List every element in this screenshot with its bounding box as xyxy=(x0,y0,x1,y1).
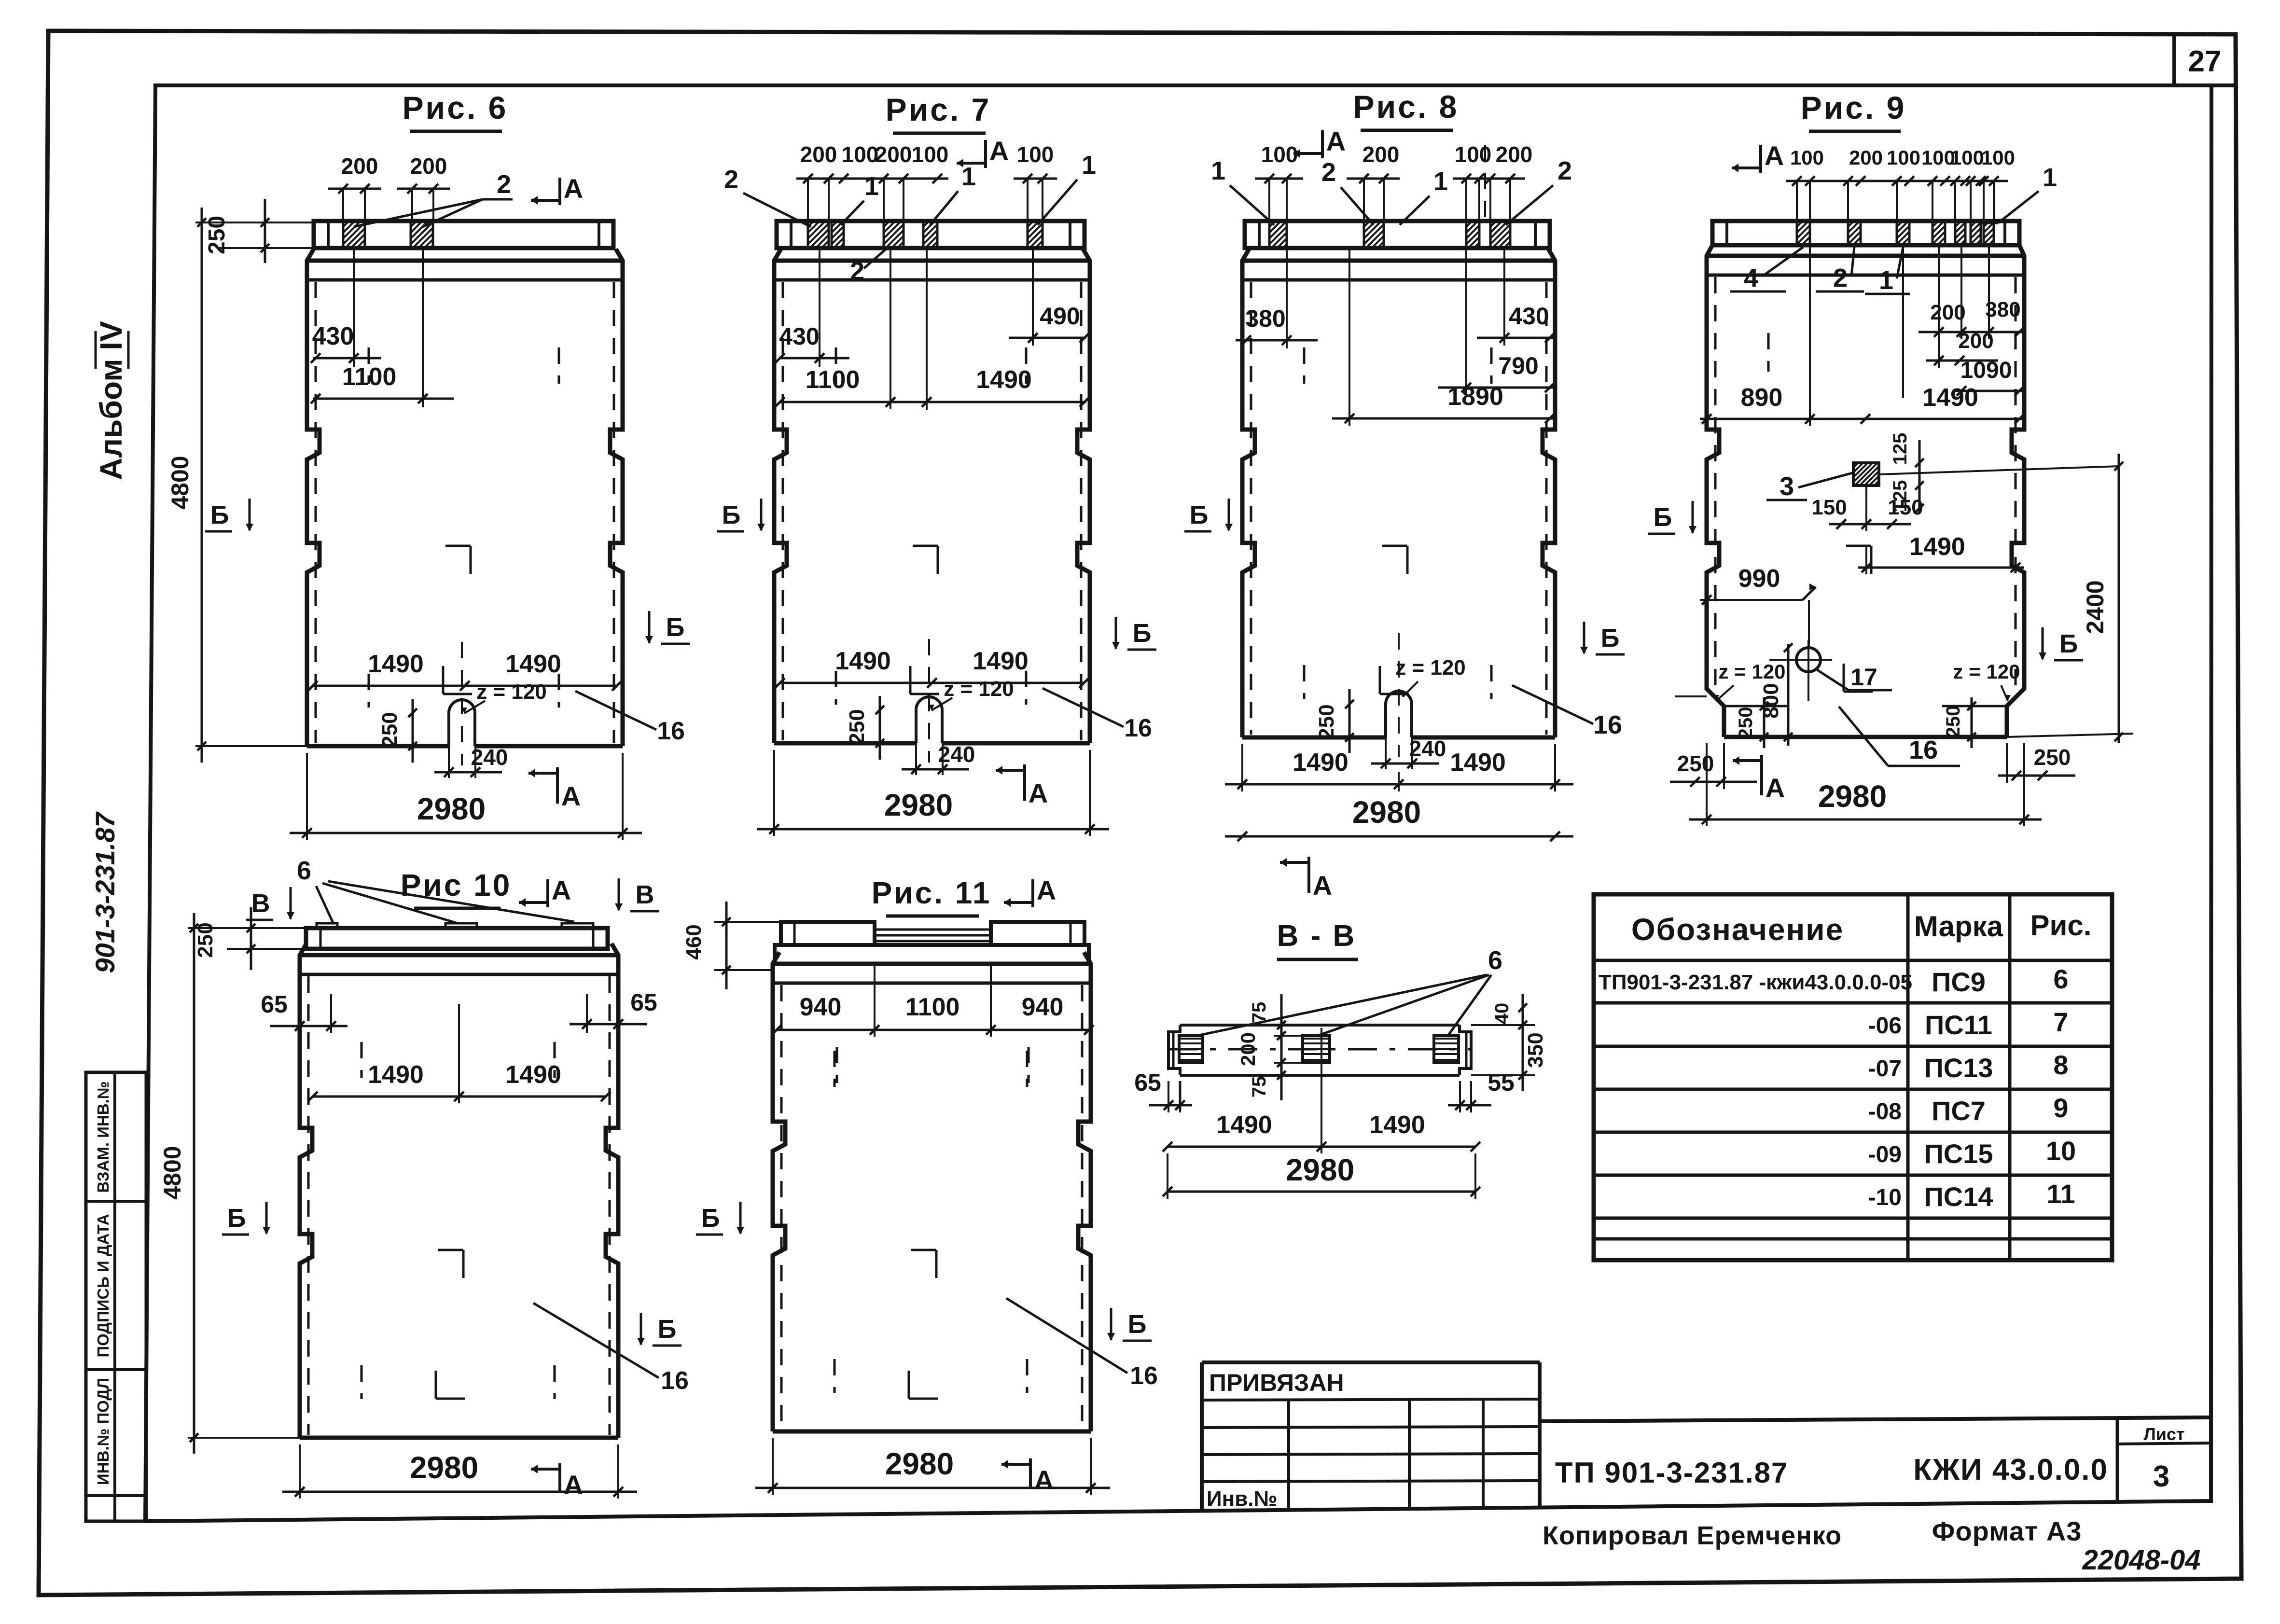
svg-text:200: 200 xyxy=(1930,301,1965,324)
svg-text:Б: Б xyxy=(1190,500,1209,529)
svg-text:27: 27 xyxy=(2188,45,2222,78)
svg-text:8: 8 xyxy=(2053,1050,2068,1080)
svg-text:1490: 1490 xyxy=(505,1061,561,1089)
svg-text:Рис. 6: Рис. 6 xyxy=(403,90,508,125)
svg-text:2980: 2980 xyxy=(1286,1152,1354,1187)
svg-text:1: 1 xyxy=(1082,151,1096,180)
svg-text:z = 120: z = 120 xyxy=(944,677,1014,701)
svg-text:ПОДПИСЬ И ДАТА: ПОДПИСЬ И ДАТА xyxy=(94,1214,112,1357)
svg-text:1490: 1490 xyxy=(1216,1111,1272,1139)
svg-text:А: А xyxy=(564,173,583,204)
svg-text:Обозначение: Обозначение xyxy=(1631,912,1844,947)
svg-text:Рис.: Рис. xyxy=(2030,909,2092,942)
svg-text:Рис. 8: Рис. 8 xyxy=(1353,89,1459,125)
svg-text:380: 380 xyxy=(1245,305,1285,332)
svg-text:250: 250 xyxy=(204,216,230,254)
svg-text:6: 6 xyxy=(2053,964,2068,994)
svg-text:Б: Б xyxy=(722,500,741,529)
svg-text:2980: 2980 xyxy=(884,788,953,822)
svg-text:940: 940 xyxy=(1022,993,1064,1021)
svg-text:2980: 2980 xyxy=(417,791,486,826)
svg-text:ТП 901-3-231.87: ТП 901-3-231.87 xyxy=(1555,1457,1788,1489)
svg-text:Б: Б xyxy=(1654,503,1672,532)
svg-text:z = 120: z = 120 xyxy=(1395,656,1466,680)
svg-text:1: 1 xyxy=(1211,156,1225,185)
svg-text:16: 16 xyxy=(1909,736,1938,764)
svg-text:Марка: Марка xyxy=(1914,910,2003,943)
svg-text:А: А xyxy=(1034,1465,1054,1495)
svg-text:Б: Б xyxy=(1601,624,1620,652)
svg-text:2980: 2980 xyxy=(885,1446,954,1481)
svg-text:460: 460 xyxy=(682,924,706,959)
svg-text:Альбом IV: Альбом IV xyxy=(94,321,128,480)
svg-text:65: 65 xyxy=(261,991,288,1018)
svg-text:-07: -07 xyxy=(1868,1056,1902,1082)
svg-text:Лист: Лист xyxy=(2143,1424,2184,1444)
svg-text:16: 16 xyxy=(1593,710,1622,739)
svg-text:4: 4 xyxy=(1744,264,1758,292)
svg-text:200: 200 xyxy=(1237,1032,1259,1066)
svg-text:В: В xyxy=(636,880,654,909)
svg-text:125: 125 xyxy=(1890,433,1911,465)
svg-text:1: 1 xyxy=(864,172,879,201)
svg-text:А: А xyxy=(1766,773,1785,803)
svg-text:100: 100 xyxy=(1017,142,1054,167)
svg-text:2980: 2980 xyxy=(1352,795,1421,830)
svg-text:Б: Б xyxy=(1128,1310,1147,1339)
svg-text:2: 2 xyxy=(1833,264,1848,292)
svg-text:65: 65 xyxy=(1134,1069,1161,1096)
svg-text:100: 100 xyxy=(1950,146,1984,169)
svg-text:2980: 2980 xyxy=(1818,779,1887,814)
svg-text:1100: 1100 xyxy=(905,993,960,1021)
svg-text:Б: Б xyxy=(658,1315,677,1344)
svg-text:100: 100 xyxy=(1981,146,2015,169)
svg-text:1490: 1490 xyxy=(1909,533,1965,561)
svg-text:200: 200 xyxy=(1362,142,1400,167)
svg-text:4800: 4800 xyxy=(159,1146,186,1199)
svg-text:250: 250 xyxy=(1943,706,1964,738)
svg-text:250: 250 xyxy=(1735,707,1756,739)
svg-text:ПС14: ПС14 xyxy=(1924,1181,1993,1212)
svg-text:380: 380 xyxy=(1985,298,2020,321)
svg-text:150: 150 xyxy=(1888,496,1923,519)
svg-text:1490: 1490 xyxy=(1450,749,1506,777)
svg-text:200: 200 xyxy=(341,153,378,179)
svg-text:200: 200 xyxy=(800,142,837,167)
svg-text:430: 430 xyxy=(312,322,354,350)
svg-text:430: 430 xyxy=(1509,303,1549,330)
svg-text:z = 120: z = 120 xyxy=(476,680,547,704)
svg-text:200: 200 xyxy=(1849,146,1883,169)
svg-text:Копировал Еремченко: Копировал Еремченко xyxy=(1543,1521,1842,1550)
svg-text:Б: Б xyxy=(227,1204,246,1233)
svg-text:350: 350 xyxy=(1524,1032,1547,1068)
svg-text:800: 800 xyxy=(1759,683,1783,718)
svg-text:16: 16 xyxy=(661,1367,689,1395)
svg-text:ПС11: ПС11 xyxy=(1925,1010,1992,1040)
svg-text:790: 790 xyxy=(1498,352,1538,379)
svg-text:-10: -10 xyxy=(1868,1185,1902,1210)
svg-text:1490: 1490 xyxy=(368,650,424,678)
svg-text:-08: -08 xyxy=(1868,1099,1902,1124)
svg-text:Рис. 11: Рис. 11 xyxy=(872,875,992,910)
svg-text:150: 150 xyxy=(1811,496,1847,519)
svg-text:100: 100 xyxy=(842,142,879,167)
svg-text:ТП901-3-231.87 -кжи43.0.0.0-0: ТП901-3-231.87 -кжи43.0.0.0-05 xyxy=(1599,971,1912,994)
svg-text:1: 1 xyxy=(961,162,976,191)
svg-text:ПС13: ПС13 xyxy=(1924,1053,1993,1083)
svg-text:16: 16 xyxy=(1124,714,1152,742)
svg-text:2980: 2980 xyxy=(410,1450,478,1485)
svg-text:ПС9: ПС9 xyxy=(1932,967,1986,997)
svg-text:3: 3 xyxy=(2153,1460,2169,1493)
svg-text:1100: 1100 xyxy=(342,363,397,391)
svg-text:А: А xyxy=(1037,875,1056,905)
svg-text:6: 6 xyxy=(1488,946,1502,975)
svg-text:10: 10 xyxy=(2046,1136,2076,1166)
svg-text:А: А xyxy=(564,1470,583,1500)
svg-text:2: 2 xyxy=(1557,156,1572,185)
svg-text:890: 890 xyxy=(1741,384,1783,412)
svg-text:6: 6 xyxy=(297,856,311,885)
svg-text:1090: 1090 xyxy=(1960,358,2012,383)
svg-text:Б: Б xyxy=(2059,629,2078,658)
svg-text:65: 65 xyxy=(630,989,657,1016)
svg-text:2: 2 xyxy=(1321,158,1336,187)
svg-text:1490: 1490 xyxy=(1922,384,1978,412)
svg-text:1: 1 xyxy=(2043,163,2057,192)
svg-text:240: 240 xyxy=(938,742,975,767)
svg-text:990: 990 xyxy=(1738,565,1780,593)
svg-text:250: 250 xyxy=(2034,745,2071,770)
svg-text:200: 200 xyxy=(875,142,912,167)
svg-text:А: А xyxy=(1313,870,1332,901)
svg-text:А: А xyxy=(1765,140,1784,171)
svg-text:В - В: В - В xyxy=(1277,919,1357,953)
svg-text:16: 16 xyxy=(657,717,685,745)
svg-text:Инв.№: Инв.№ xyxy=(1207,1487,1278,1511)
svg-text:250: 250 xyxy=(1677,751,1714,776)
svg-text:А: А xyxy=(561,781,581,811)
svg-text:200: 200 xyxy=(1958,329,1993,353)
svg-text:А: А xyxy=(552,875,571,905)
svg-text:1100: 1100 xyxy=(806,366,860,394)
svg-text:9: 9 xyxy=(2053,1093,2068,1123)
svg-text:17: 17 xyxy=(1850,664,1877,691)
svg-text:2: 2 xyxy=(724,165,738,194)
svg-text:ВЗАМ. ИНВ.№: ВЗАМ. ИНВ.№ xyxy=(94,1081,112,1193)
svg-text:250: 250 xyxy=(378,712,402,747)
svg-text:1490: 1490 xyxy=(973,647,1029,675)
svg-text:490: 490 xyxy=(1040,303,1080,330)
svg-text:100: 100 xyxy=(1261,142,1298,167)
svg-text:1490: 1490 xyxy=(505,650,561,678)
svg-text:1: 1 xyxy=(1879,266,1893,295)
svg-text:7: 7 xyxy=(2053,1007,2068,1037)
svg-text:А: А xyxy=(1029,778,1048,808)
svg-text:901-3-231.87: 901-3-231.87 xyxy=(90,811,120,973)
svg-text:75: 75 xyxy=(1249,1076,1270,1098)
svg-text:1490: 1490 xyxy=(1293,749,1349,777)
svg-text:1490: 1490 xyxy=(835,647,891,675)
svg-text:А: А xyxy=(1326,126,1346,156)
svg-text:1490: 1490 xyxy=(976,366,1032,394)
svg-text:430: 430 xyxy=(779,323,819,350)
svg-text:В: В xyxy=(251,889,270,918)
svg-text:z = 120: z = 120 xyxy=(1719,660,1786,683)
svg-text:250: 250 xyxy=(1315,704,1338,739)
svg-text:55: 55 xyxy=(1488,1069,1515,1096)
svg-text:ПС7: ПС7 xyxy=(1932,1096,1986,1126)
svg-text:Формат А3: Формат А3 xyxy=(1932,1516,2082,1546)
svg-text:3: 3 xyxy=(1780,472,1794,501)
svg-text:А: А xyxy=(989,136,1009,166)
svg-text:100: 100 xyxy=(912,142,949,167)
svg-text:250: 250 xyxy=(845,709,869,744)
svg-text:100: 100 xyxy=(1887,146,1920,169)
svg-text:16: 16 xyxy=(1130,1362,1158,1390)
svg-text:Б: Б xyxy=(210,500,229,529)
svg-text:2: 2 xyxy=(497,170,511,199)
svg-text:2400: 2400 xyxy=(2082,580,2109,634)
svg-text:Рис. 7: Рис. 7 xyxy=(886,92,991,127)
svg-text:Рис 10: Рис 10 xyxy=(401,868,512,902)
svg-text:1490: 1490 xyxy=(1369,1111,1425,1139)
svg-text:22048-04: 22048-04 xyxy=(2082,1544,2200,1576)
svg-text:75: 75 xyxy=(1249,1002,1270,1024)
svg-text:4800: 4800 xyxy=(167,456,194,509)
svg-text:Б: Б xyxy=(701,1204,720,1233)
svg-text:ПРИВЯЗАН: ПРИВЯЗАН xyxy=(1209,1369,1344,1396)
svg-text:z = 120: z = 120 xyxy=(1953,660,2020,683)
svg-text:11: 11 xyxy=(2046,1179,2075,1209)
svg-text:ИНВ.№ ПОДЛ: ИНВ.№ ПОДЛ xyxy=(94,1378,112,1485)
svg-text:40: 40 xyxy=(1491,1003,1513,1025)
svg-text:100: 100 xyxy=(1790,146,1824,169)
svg-text:-09: -09 xyxy=(1868,1142,1902,1167)
svg-text:-06: -06 xyxy=(1868,1013,1902,1039)
svg-text:Рис. 9: Рис. 9 xyxy=(1801,90,1906,125)
svg-text:1490: 1490 xyxy=(368,1061,424,1089)
svg-text:240: 240 xyxy=(471,745,508,770)
svg-text:200: 200 xyxy=(410,153,447,179)
svg-text:940: 940 xyxy=(800,993,842,1021)
svg-text:2: 2 xyxy=(850,257,864,286)
svg-text:КЖИ 43.0.0.0: КЖИ 43.0.0.0 xyxy=(1913,1453,2108,1486)
svg-text:Б: Б xyxy=(666,613,685,642)
svg-text:1: 1 xyxy=(1433,167,1448,196)
svg-text:240: 240 xyxy=(1409,736,1446,761)
svg-text:Б: Б xyxy=(1133,619,1152,648)
svg-text:ПС15: ПС15 xyxy=(1924,1138,1993,1169)
svg-text:200: 200 xyxy=(1496,142,1533,167)
svg-text:1890: 1890 xyxy=(1447,383,1503,411)
